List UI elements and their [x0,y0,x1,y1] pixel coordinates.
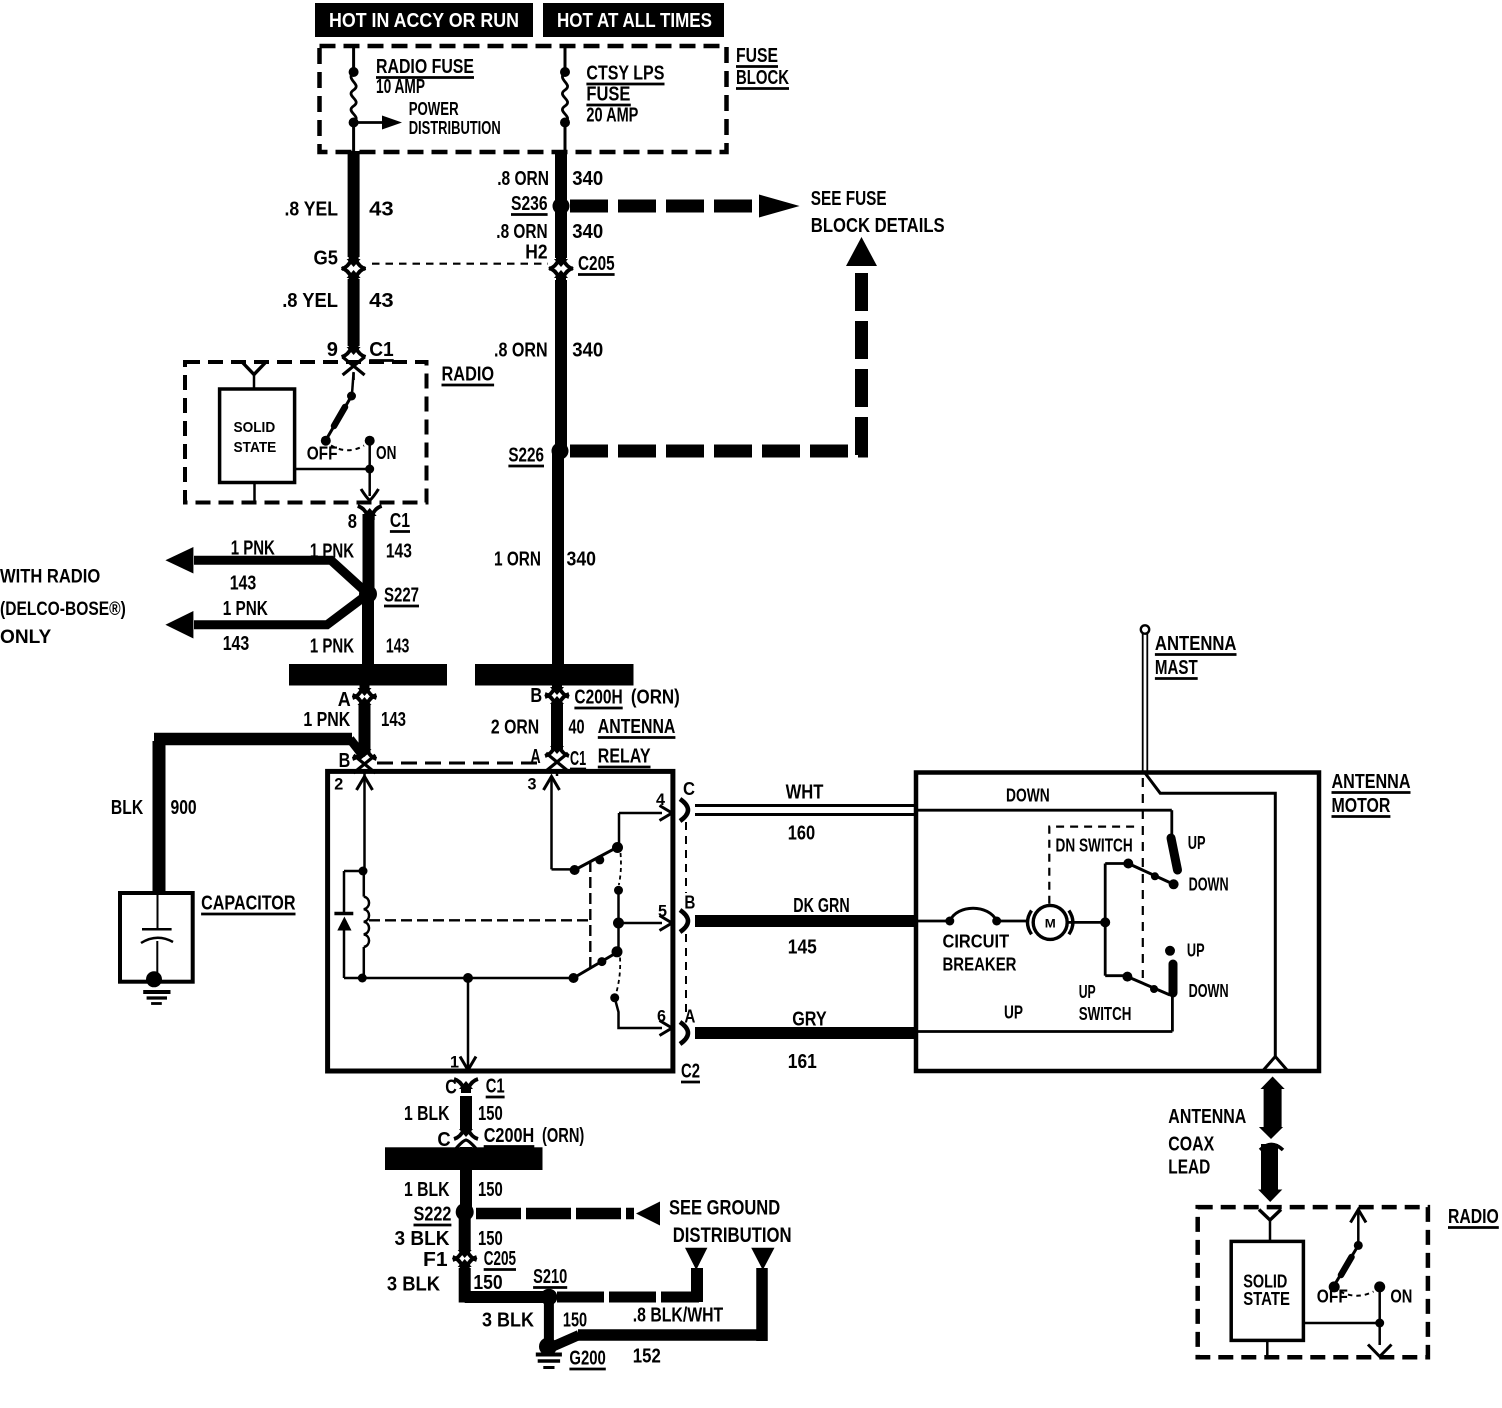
svg-text:3 BLK: 3 BLK [482,1310,534,1332]
svg-text:C2: C2 [681,1061,700,1083]
wire contact to pin5 node [617,890,620,923]
connector B at relay C1 pin B [339,745,377,778]
dashed mast actuator link [1142,778,1144,978]
switch SW radio power blade [327,396,352,439]
node upper contact pivot [570,865,580,875]
wire 143 upper branch labels [230,538,276,595]
svg-text:ANTENNA: ANTENNA [1168,1106,1246,1128]
see fuse block details note [811,188,945,237]
radio fuse value label [376,56,474,98]
svg-text:C1: C1 [390,510,410,532]
dashed actuator link vertical [589,861,591,969]
wire 150 label third [395,1228,503,1250]
wire 161 labels [788,1009,827,1074]
wire 145 labels [788,895,850,959]
svg-text:C1: C1 [486,1076,505,1098]
connector C1 pin C below relay [445,1076,505,1099]
svg-text:43: 43 [369,290,394,312]
relay pin 5 arrow [658,902,672,931]
svg-text:CAPACITOR: CAPACITOR [201,893,296,915]
wire switch output down [1378,1323,1381,1345]
dn switch blade up position [1171,838,1178,870]
node dn switch common [1123,859,1133,869]
svg-text:A: A [530,746,540,768]
connector C205 [549,255,573,282]
connector C205 label [578,253,615,275]
svg-text:S236: S236 [511,193,548,215]
relay upper movable contact blade [575,842,623,870]
relay pin 4 arrow [656,790,672,821]
svg-text:(ORN): (ORN) [631,687,680,709]
svg-text:10 AMP: 10 AMP [376,76,425,98]
svg-text:(ORN): (ORN) [542,1125,584,1147]
antenna coax lead lower [1258,1144,1282,1202]
node up switch up contact [1165,946,1175,956]
splice S222 [456,1203,474,1221]
node pin 1 junction [463,973,473,983]
wire 161 GRY [695,1027,916,1039]
svg-text:150: 150 [563,1310,587,1332]
svg-text:S227: S227 [384,585,419,607]
radio bottom name label [1448,1206,1499,1228]
dashed connector line B to A [377,762,537,765]
wire 340 S226 to page bar [552,451,564,666]
svg-text:C200H: C200H [484,1125,535,1147]
splice S210 [541,1289,558,1306]
svg-text:160: 160 [788,823,815,845]
node radio switch OFF contact [321,436,331,446]
svg-text:900: 900 [171,797,197,819]
svg-text:GRY: GRY [792,1009,827,1031]
wire contact to pin 4 [619,813,662,848]
page boundary bar bottom [385,1147,543,1170]
svg-text:.8 ORN: .8 ORN [496,221,547,243]
motor M armature [1028,905,1073,939]
radio ON label [376,443,396,463]
svg-text:RADIO: RADIO [1448,1206,1499,1228]
node radio fuse bottom terminal [349,118,359,128]
node radio bottom switch pivot [1354,1241,1363,1250]
down wire label [1006,786,1050,806]
grommet G5 label [314,248,339,270]
wire 150 label second [404,1179,503,1201]
svg-text:340: 340 [572,340,603,362]
up wire label [1004,1003,1023,1023]
svg-text:DOWN: DOWN [1189,875,1229,895]
capacitor plate top [142,928,172,931]
svg-text:UP: UP [1188,833,1206,853]
wire 150 C200H to bar [460,1147,472,1160]
svg-text:S210: S210 [533,1266,567,1288]
svg-text:C200H: C200H [574,687,622,709]
svg-text:A: A [338,689,351,711]
svg-text:340: 340 [567,549,597,571]
wire 152 labels [633,1305,723,1368]
antenna motor name label [1332,771,1411,817]
splice S210 label [533,1266,567,1288]
radio OFF label [307,444,338,464]
node radio solid state junction [365,465,374,474]
power feed label HOT AT ALL TIMES [543,3,724,37]
wire up from pin A [916,1030,1172,1033]
dn switch up label [1188,833,1206,853]
wire 145 DK GRN [695,915,916,927]
svg-text:WITH RADIO: WITH RADIO [0,567,100,588]
node capacitor case ground [146,971,162,987]
node radio fuse top terminal [349,67,359,77]
antenna coax lead upper [1259,1077,1285,1140]
page boundary bar left [289,664,447,686]
connector C1 pin 8 at radio [358,489,382,520]
wire 150 label fourth [387,1272,503,1296]
svg-text:1 ORN: 1 ORN [494,549,541,571]
see ground distribution note [669,1196,792,1248]
svg-text:1 PNK: 1 PNK [223,598,269,620]
wire radio fuse to fuse block edge [352,126,355,153]
svg-text:ANTENNA: ANTENNA [1332,771,1411,793]
dashed connector C2 link [685,822,687,1012]
node radio switch pivot [347,392,356,401]
svg-text:143: 143 [230,573,257,595]
ground G200 [536,1338,562,1368]
arrow lower delco-bose [165,611,193,639]
radio antenna input connector [243,363,265,389]
relay pin 2 arrow [334,775,372,872]
connector C200H label [574,687,679,709]
svg-text:SEE GROUND: SEE GROUND [669,1196,780,1220]
lower blade travel arc [617,958,621,993]
up switch blade to down position [1127,977,1170,995]
capacitor name label [201,893,296,915]
wire 152 .8 BLK WHT [554,1268,764,1346]
wire 150 1 BLK relay to C200H [460,1096,472,1130]
svg-text:C1: C1 [369,339,394,361]
svg-text:BLK: BLK [111,797,144,819]
svg-text:HOT AT ALL TIMES: HOT AT ALL TIMES [557,10,712,32]
svg-text:152: 152 [633,1346,661,1368]
splice S226 [552,443,569,460]
svg-text:SOLID: SOLID [234,419,276,436]
circuit breaker CB element [916,908,1028,925]
svg-text:LEAD: LEAD [1168,1157,1210,1179]
svg-text:3 BLK: 3 BLK [387,1274,441,1296]
svg-text:2 ORN: 2 ORN [491,717,539,739]
svg-text:RELAY: RELAY [598,746,651,768]
wire 150 label first [404,1103,503,1125]
radio name label [442,364,495,386]
svg-text:BLOCK DETAILS: BLOCK DETAILS [811,215,945,237]
node lower contact pivot [569,973,579,983]
svg-text:FUSE: FUSE [586,84,630,106]
arrow dashed riser up [846,237,877,266]
wire 340 label lower [494,340,603,362]
svg-text:STATE: STATE [234,439,277,456]
svg-text:UP: UP [1187,941,1205,961]
svg-text:9: 9 [327,339,338,361]
splice S227 label [384,585,419,607]
svg-text:C205: C205 [578,253,615,275]
fuse block name label [736,45,789,89]
svg-text:1 BLK: 1 BLK [404,1103,450,1125]
svg-text:ON: ON [376,443,396,463]
svg-text:DISTRIBUTION: DISTRIBUTION [673,1223,792,1247]
svg-text:S226: S226 [508,445,544,467]
capacitor internal lead top [157,893,159,929]
radio bottom ON label [1390,1287,1412,1307]
svg-text:43: 43 [369,199,394,221]
node radio bottom ON contact [1374,1281,1385,1292]
node radio bottom junction [1375,1319,1384,1328]
wire up switch to up wire [1171,995,1174,1032]
antenna mast [1141,625,1149,773]
connector C1 pin 9 [342,343,366,380]
wire 143 label at relay [303,709,406,731]
wire solid state to radio case [253,483,256,503]
wire radio switch output [368,469,371,496]
splice S227 [359,585,377,603]
wire 143 branch lower to delco-bose [194,594,368,625]
wire 340 label mid [496,221,603,243]
ground symbol at capacitor [143,992,170,1004]
svg-text:B: B [339,750,351,772]
connector C205 pin H2 label [525,242,547,264]
svg-text:ANTENNA: ANTENNA [1155,633,1237,655]
wire bottom rail [362,977,573,980]
svg-text:BREAKER: BREAKER [943,955,1017,975]
svg-text:CIRCUIT: CIRCUIT [943,932,1010,952]
svg-text:20 AMP: 20 AMP [586,105,638,127]
svg-text:DN SWITCH: DN SWITCH [1056,836,1133,856]
connector A below bar [338,684,377,711]
wire radio switch from pin 9 [352,372,354,394]
svg-text:.8 YEL: .8 YEL [282,290,338,312]
wire down from pin C [916,810,1172,836]
node pin 5 junction [613,918,624,929]
svg-text:H2: H2 [525,242,547,264]
wire 43 .8 YEL G5 to radio pin 9 [348,279,360,346]
radio coax input connector [1259,1210,1281,1242]
connector C2 pin A [680,1007,695,1045]
svg-text:DOWN: DOWN [1189,981,1229,1001]
node radio switch ON contact [365,436,375,446]
svg-text:1 PNK: 1 PNK [231,538,276,560]
svg-text:HOT IN ACCY OR RUN: HOT IN ACCY OR RUN [329,10,519,32]
with radio delco-bose note [0,567,126,649]
wire from hot-at-all-times feed into ctsy fuse [564,46,567,72]
svg-text:MOTOR: MOTOR [1332,795,1391,817]
fuse F ctsy lps 20A element [562,72,567,122]
relay pin 1 arrow [450,1053,476,1072]
relay coil L element [364,871,369,978]
svg-text:1: 1 [450,1053,459,1072]
dashed bulkhead line G5 to C205 [372,263,548,265]
power feed label HOT IN ACCY OR RUN [315,3,533,37]
wire 150 3 BLK S222 to C205 [459,1212,471,1251]
wire 143 branch upper to delco-bose [194,560,368,594]
svg-text:.8 ORN: .8 ORN [497,168,549,190]
svg-text:161: 161 [788,1051,817,1073]
svg-text:6: 6 [657,1007,666,1026]
svg-text:340: 340 [572,221,603,243]
connector C2 pin C [680,779,695,821]
svg-text:40: 40 [569,717,585,739]
op-amp U radio solid state box [220,389,295,483]
wire 43 label second [282,290,394,312]
radio switch travel arc [331,446,364,451]
node relay coil top [359,867,368,876]
wire dashed S210 to ground distribution [557,1292,699,1303]
wire motor junction to up switch [1105,922,1127,975]
connector C2 pin B [680,893,695,933]
svg-text:150: 150 [478,1103,503,1125]
radio pin 8 label [348,510,410,533]
wire 340 .8 ORN fuse block to S236 [555,151,567,206]
node motor output junction [1068,917,1111,927]
wire 160 labels [786,782,824,845]
arrow see ground distribution [636,1202,660,1226]
wire 150 label fifth [482,1310,587,1332]
dn switch blade to down contact [1128,864,1173,885]
svg-text:C1: C1 [570,748,586,770]
svg-text:STATE: STATE [1243,1289,1290,1309]
svg-text:M: M [1045,917,1056,931]
svg-text:1 PNK: 1 PNK [303,709,350,731]
connector B of C200H [530,683,569,708]
svg-text:143: 143 [386,636,410,658]
ground G200 label [569,1348,605,1370]
wire contact to pin 6 [615,998,662,1028]
wire 160 WHT double line [695,806,916,815]
radio bottom switch travel arc [1340,1292,1374,1296]
svg-text:2: 2 [334,775,343,794]
svg-text:BLOCK: BLOCK [736,67,789,89]
svg-text:150: 150 [478,1228,503,1250]
connector radio bottom output [1368,1345,1392,1357]
up switch blade down position [1169,964,1178,993]
wire 150 S210 to G200 [544,1297,554,1347]
diode D relay suppression [334,914,353,931]
page boundary bar right [475,664,634,686]
up switch down label [1189,981,1229,1001]
connector coax at motor [1264,1057,1288,1071]
wire 43 label [285,199,394,221]
radio bottom switch input arrow [1351,1210,1367,1246]
wire 43 .8 YEL fuse block to G5 [348,151,360,257]
svg-text:S222: S222 [414,1204,452,1226]
wire 900 BLK capacitor to relay pin B [154,739,364,891]
svg-text:8: 8 [348,511,357,533]
wire ctsy fuse to fuse block edge [564,126,567,153]
radio bottom OFF label [1317,1287,1348,1307]
svg-text:DISTRIBUTION: DISTRIBUTION [409,118,501,138]
wire dashed S222 to ground distribution [476,1208,634,1220]
op-amp U radio bottom solid state box [1231,1241,1303,1340]
wire mast to coax [1145,773,1275,1056]
relay pin 6 arrow [657,1007,672,1036]
switch SW radio bottom blade [1335,1245,1358,1284]
node ctsy fuse bottom terminal [560,118,570,128]
up switch up label [1187,941,1205,961]
connector G5 [342,255,366,282]
wire riser to ground distribution arrow 1 [691,1268,703,1302]
svg-text:SEE FUSE: SEE FUSE [811,188,887,210]
svg-text:F1: F1 [423,1249,448,1271]
wire pin3 to upper contact pivot [552,868,575,871]
antenna relay name label [598,716,676,768]
svg-text:143: 143 [223,633,250,655]
wire solid state to switch bottom [1303,1322,1379,1325]
wire diode to coil bottom [344,930,362,978]
dashed actuator link horizontal [369,919,589,921]
svg-text:145: 145 [788,937,817,959]
svg-text:RADIO: RADIO [442,364,495,386]
svg-text:DOWN: DOWN [1006,786,1050,806]
relay pin 3 arrow [528,775,560,870]
wire 143 label below S227 [310,636,410,658]
svg-text:C205: C205 [484,1248,516,1270]
capacitor plate bottom curved [141,938,173,943]
svg-text:G200: G200 [569,1348,605,1370]
motor M antenna motor enclosure [916,773,1319,1072]
svg-text:C: C [683,779,695,799]
upper blade travel arc [619,853,621,885]
wire dashed S226 to fuse block details [570,268,868,455]
wire 143 radio to S227 [363,514,375,594]
radio pin 9 label [327,339,394,361]
arrow to power distribution [354,116,402,130]
capacitor C noise suppressor box [120,893,193,982]
svg-text:340: 340 [572,168,603,190]
svg-text:5: 5 [658,902,667,921]
svg-text:143: 143 [381,709,406,731]
connector A at relay C1 pin A [530,742,586,776]
arrow upper delco-bose [165,547,193,574]
wire solid state bottom lead [1266,1340,1269,1357]
dn switch label [1056,836,1133,856]
svg-text:WHT: WHT [786,782,824,804]
svg-text:150: 150 [478,1179,503,1201]
capacitor internal lead bottom [156,941,158,975]
svg-text:B: B [684,893,695,913]
svg-text:.8 YEL: .8 YEL [285,199,339,221]
arrow triangle ground distribution 2 [751,1248,774,1270]
svg-text:ON: ON [1390,1287,1412,1307]
connector C205 pin F1 [423,1246,516,1271]
svg-text:.8 BLK/WHT: .8 BLK/WHT [633,1305,723,1327]
relay lower movable contact blade [574,946,623,978]
wire ON contact down [368,441,371,469]
connector coax inline [1260,1145,1283,1151]
svg-text:COAX: COAX [1168,1134,1215,1156]
wire 40 label [491,717,585,739]
wire 150 C205 to S210 [465,1268,545,1303]
svg-text:POWER: POWER [409,99,459,119]
antenna mast label [1155,633,1237,679]
node lower fixed contact [610,993,619,1002]
wire 143 lower branch labels [223,598,269,655]
wire dn switch common [1105,864,1128,922]
wire pin5 node to pin 5 [619,922,663,925]
wire pin 1 down [467,978,470,1068]
svg-text:B: B [530,685,542,707]
svg-text:3: 3 [528,775,537,794]
svg-text:UP: UP [1079,982,1096,1002]
circuit breaker label [943,932,1017,975]
wire 40 2 ORN [551,704,563,749]
wire ON to junction [1378,1287,1381,1323]
fuse block enclosure [320,46,727,152]
svg-text:DK GRN: DK GRN [793,895,849,917]
